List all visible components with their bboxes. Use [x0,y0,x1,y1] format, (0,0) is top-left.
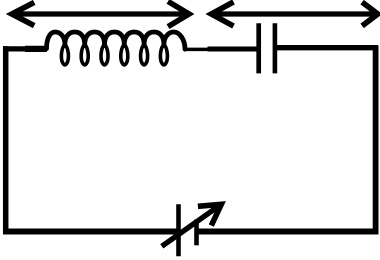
arrow A1 left head [12,2,34,25]
variable capacitor C2 arrow shaft [162,204,222,246]
variable capacitor C2 left plate [176,204,181,256]
wire top-left segment [3,46,26,51]
wire bottom-right segment [197,229,379,235]
wire bottom-left segment [3,229,179,235]
wire top-right segment [275,45,378,50]
wire top-middle thin segment [184,48,209,52]
inductor L1 lower loops [61,44,167,65]
wire right edge [373,46,379,234]
capacitor C1 right plate [273,23,278,73]
wire top-left segment part 2 [25,46,47,52]
arrow A1 right head [168,1,189,26]
wire top-middle segment [208,47,259,52]
wire left edge [3,46,9,234]
arrow A2 left head [211,2,233,26]
variable capacitor C2 arrow head [198,204,221,225]
capacitor C1 left plate [256,23,261,73]
inductor L1 humps [47,32,186,49]
arrow A1 shaft (double-headed arrow over inductor) [14,11,186,16]
arrow A2 right head [362,2,378,26]
arrow A2 shaft (double-headed arrow over capacitor) [214,11,376,16]
variable capacitor C2 right plate [194,220,199,246]
